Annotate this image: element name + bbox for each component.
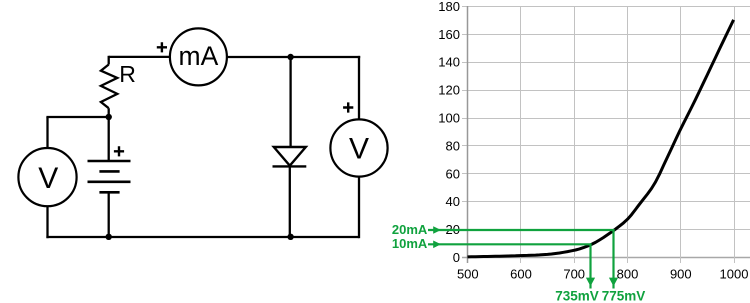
svg-text:60: 60	[446, 166, 460, 181]
svg-text:mA: mA	[179, 41, 219, 71]
node C junction dot (diode top)	[287, 54, 293, 60]
svg-text:V: V	[38, 162, 58, 195]
annotation 775mV down arrowhead	[609, 278, 618, 287]
svg-text:600: 600	[510, 267, 532, 282]
wire top-left horizontal	[46, 116, 108, 118]
wire ammeter to right corner	[228, 56, 361, 58]
svg-text:120: 120	[438, 83, 460, 98]
annotation 735mV down arrowhead	[586, 278, 595, 287]
diode D1 cathode bar	[273, 165, 307, 167]
svg-text:500: 500	[457, 267, 479, 282]
wire diode bottom lead	[289, 166, 291, 237]
annotation 10mA arrowhead	[433, 241, 441, 249]
resistor R1 top corner wire	[108, 56, 110, 65]
wire right branch down to voltmeter U2	[358, 56, 360, 120]
plus sign of ammeter	[157, 42, 167, 52]
wire top horizontal to ammeter	[109, 56, 170, 58]
annotation 20mA arrowhead	[433, 226, 441, 234]
wire voltmeter U2 bottom lead	[358, 177, 360, 238]
svg-text:10mA: 10mA	[392, 236, 428, 251]
svg-text:900: 900	[670, 267, 692, 282]
svg-text:0: 0	[453, 250, 460, 265]
chart x-axis line	[462, 257, 750, 259]
svg-text:735mV: 735mV	[555, 288, 599, 303]
annotation 10mA horizontal line	[428, 243, 592, 245]
wire V1 top lead	[46, 117, 48, 147]
wire battery top lead	[108, 117, 110, 160]
node D junction dot (diode bottom)	[287, 234, 293, 240]
svg-text:80: 80	[446, 138, 460, 153]
y axis labels	[438, 0, 460, 265]
annotation 20mA horizontal line	[428, 229, 615, 231]
svg-text:V: V	[349, 132, 369, 165]
battery B1 plates	[88, 161, 131, 192]
x axis labels	[457, 267, 749, 282]
voltmeter U2 circle	[330, 119, 387, 176]
voltmeter U1 circle	[18, 148, 76, 206]
annotation 775mV vertical line	[612, 230, 614, 289]
node A junction dot	[106, 114, 112, 120]
wire diode top lead	[289, 56, 291, 147]
svg-text:775mV: 775mV	[602, 288, 646, 303]
wire battery bottom lead	[108, 194, 110, 238]
svg-text:1000: 1000	[720, 267, 749, 282]
svg-text:100: 100	[438, 111, 460, 126]
ammeter M1 circle	[170, 28, 227, 85]
chart gridlines horizontal	[462, 7, 750, 230]
resistor R1 zigzag	[101, 65, 117, 109]
svg-text:180: 180	[438, 0, 460, 14]
wire bottom rail	[46, 236, 359, 238]
wire V1 bottom lead	[46, 207, 48, 239]
node B junction dot (battery bottom)	[106, 234, 112, 240]
plus sign of voltmeter U2	[343, 102, 353, 112]
svg-text:R: R	[119, 61, 136, 87]
svg-text:160: 160	[438, 27, 460, 42]
plus sign of battery	[114, 146, 124, 156]
wire resistor to node A	[108, 108, 110, 117]
diode IV curve	[468, 20, 734, 257]
chart y-axis line	[467, 6, 469, 263]
diode D1 triangle	[274, 147, 306, 166]
svg-text:800: 800	[617, 267, 639, 282]
svg-text:40: 40	[446, 194, 460, 209]
chart gridlines vertical	[521, 7, 735, 264]
annotation 735mV vertical line	[589, 244, 591, 288]
svg-text:700: 700	[563, 267, 585, 282]
svg-text:20mA: 20mA	[392, 222, 428, 237]
svg-text:140: 140	[438, 55, 460, 70]
